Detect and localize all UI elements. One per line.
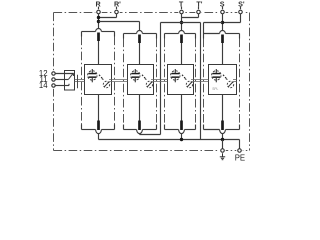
terminal PE: [238, 149, 242, 153]
wire bar to module 4 box: [222, 43, 224, 65]
terminal 14: [39, 81, 55, 90]
wire R' jog to R: [99, 14, 117, 18]
terminal S: [220, 0, 225, 14]
module 3 bottom crossed wire with hump: [165, 130, 196, 134]
wire bar to module 3 box: [181, 43, 183, 65]
svg-text:T': T': [196, 0, 202, 8]
wire module 2 box to bottom bar: [139, 95, 141, 121]
changeover contact lever: [68, 73, 73, 80]
wire module 3 box to bottom bar: [181, 95, 183, 121]
node T junction: [180, 21, 183, 24]
wire bar to module 1 box: [98, 41, 100, 65]
decoupling impedance top (module 4): [221, 35, 224, 44]
gas discharge tube (module 4): [212, 69, 221, 82]
wire T down: [181, 14, 183, 31]
module 2 bottom crossed wire with hump: [124, 130, 157, 134]
wire module 2 output to T link: [139, 133, 141, 136]
module 2 SPD box: [128, 65, 154, 95]
module 1 bottom crossed wire with hump: [82, 130, 115, 134]
wire bar to module 2 box: [139, 43, 141, 65]
module 3 top crossed wire with hump: [165, 31, 196, 34]
changeover contact box: [65, 71, 75, 91]
decoupling impedance bottom (module 2): [138, 121, 141, 131]
terminal T': [196, 0, 202, 14]
terminal earth: [221, 149, 225, 153]
decoupling impedance top (module 1): [97, 33, 100, 42]
svg-text:14: 14: [39, 81, 48, 90]
wire terminal 11 to contact: [55, 79, 68, 81]
module 3 SPD box: [168, 65, 194, 95]
channel 4 crossed wire ring (dash-dot verticals): [204, 34, 240, 130]
wire S down: [222, 14, 224, 31]
ground symbol: [220, 153, 225, 160]
gas discharge tube (module 3): [171, 69, 180, 82]
disconnector (module 1): [103, 81, 109, 87]
disconnector (module 3): [186, 81, 192, 87]
enclosure border (dash-dot): [50, 9, 249, 154]
wire R down: [98, 14, 100, 29]
svg-text:S': S': [238, 0, 245, 8]
module 2 top crossed wire with hump: [124, 31, 157, 34]
module 1 top crossed wire with hump: [82, 28, 115, 31]
terminal R: [95, 0, 101, 14]
sparkover arrow (module 4): [223, 75, 228, 80]
wire S' jog to S: [223, 14, 241, 23]
terminal T: [179, 0, 184, 14]
node module 3 / PE bus: [180, 138, 183, 141]
PE bus: [99, 139, 240, 141]
mechanical linkage to modules: [75, 80, 237, 82]
wire T' jog to T: [182, 14, 199, 18]
wire bus to earth terminal: [222, 140, 224, 149]
wire bus to PE terminal: [239, 140, 241, 149]
disconnector (module 2): [146, 81, 152, 87]
module 4 SPD box: [209, 65, 237, 95]
gas discharge tube (module 1): [88, 69, 97, 82]
channel 1 crossed wire ring (dash-dot verticals): [82, 32, 115, 130]
wire module 4 box to bottom bar: [222, 95, 224, 121]
decoupling impedance top (module 3): [180, 35, 183, 44]
decoupling impedance bottom (module 3): [180, 121, 183, 131]
linkage tick: [77, 75, 79, 89]
wire T left branch down to module 2 output: [140, 23, 182, 135]
channel 3 crossed wire ring (dash-dot verticals): [165, 34, 196, 130]
node R branch junction: [97, 20, 100, 23]
svg-text:SPL: SPL: [212, 87, 218, 91]
terminal 12: [39, 69, 55, 78]
wire module 1 to PE bus: [98, 134, 100, 140]
channel 2 crossed wire ring (dash-dot verticals): [124, 34, 157, 130]
wire S left branch to module 4 ring: [204, 23, 223, 34]
decoupling impedance bottom (module 4): [221, 121, 224, 131]
svg-text:S: S: [220, 0, 225, 8]
wire module 1 box to bottom bar: [98, 95, 100, 121]
node R-R junction: [97, 16, 100, 19]
sparkover arrow (module 1): [99, 75, 104, 80]
svg-text:PE: PE: [235, 154, 245, 163]
node module 4 / PE bus: [221, 138, 224, 141]
decoupling impedance bottom (module 1): [97, 121, 100, 131]
wire terminal 14 to contact: [55, 84, 69, 86]
wire R to module 2 feed: [99, 22, 140, 31]
svg-text:R: R: [95, 0, 101, 8]
svg-text:T: T: [179, 0, 184, 8]
wire module 3 to PE bus: [181, 134, 183, 140]
sparkover arrow (module 2): [142, 75, 147, 80]
module 1 SPD box: [85, 65, 112, 95]
decoupling impedance top (module 2): [138, 35, 141, 44]
wire T right branch down to PE bus: [182, 23, 201, 140]
module 4 top crossed wire with hump: [204, 31, 240, 34]
wire terminal 12 to contact: [55, 73, 73, 75]
module 4 bottom crossed wire with hump: [204, 130, 240, 134]
terminal 11: [40, 75, 56, 84]
sparkover arrow (module 3): [182, 75, 187, 80]
node S junction: [221, 21, 224, 24]
gas discharge tube (module 2): [131, 69, 140, 82]
svg-text:R': R': [114, 0, 121, 8]
disconnector (module 4): [227, 81, 233, 87]
terminal S': [238, 0, 245, 14]
wire module 4 to PE bus: [222, 134, 224, 140]
terminal R': [114, 0, 121, 14]
